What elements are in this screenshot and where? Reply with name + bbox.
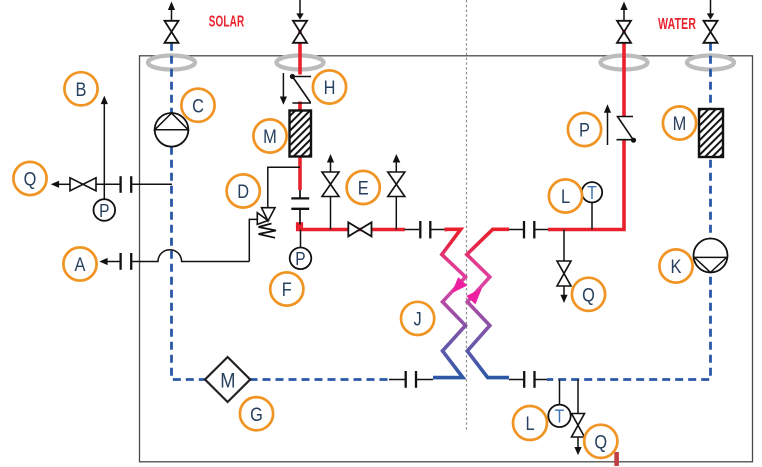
label circle Q bottom — [584, 425, 617, 458]
vent arrow up above right red valve — [623, 8, 625, 20]
svg-text:Q: Q — [594, 431, 607, 453]
drain line A with crossover bump — [131, 250, 250, 262]
label circle L upper — [549, 179, 582, 212]
label circle H — [313, 70, 346, 103]
label circle C — [181, 89, 214, 122]
union on drain line A — [119, 253, 121, 270]
blue bottom run from flow meter to HX union — [250, 378, 390, 381]
svg-text:T: T — [555, 406, 565, 427]
union on line Q left — [119, 176, 121, 193]
pressure gauge P on line Q left — [103, 184, 105, 200]
gray sleeve ellipse left blue pipe — [148, 56, 195, 70]
air vent E valve 2 — [395, 197, 397, 230]
red solar supply pipe top segment — [298, 31, 302, 75]
gray sleeve ellipse left red pipe — [277, 56, 324, 70]
svg-text:F: F — [282, 279, 292, 301]
valve on line Q left (bowtie) — [70, 178, 96, 191]
vent line B with arrow up — [103, 104, 105, 185]
svg-text:J: J — [414, 308, 422, 330]
top valve on right red pipe — [617, 21, 631, 43]
relief valve D drain elbow — [249, 219, 257, 261]
label circle B — [64, 72, 97, 105]
label circle M left — [253, 119, 286, 152]
top valve on left blue pipe — [165, 21, 179, 43]
union on red header right side of HX — [509, 229, 523, 231]
relief valve D spring — [259, 224, 277, 238]
gray sleeve ellipse right blue pipe — [687, 56, 734, 70]
union on red header left — [405, 229, 420, 231]
label circle K — [659, 249, 692, 282]
thermometer T on water header — [591, 203, 593, 230]
label circle Q left — [13, 162, 46, 195]
svg-text:M: M — [263, 126, 277, 148]
top valve on left red pipe — [293, 21, 307, 43]
drain valve Q on water header — [563, 230, 565, 262]
red pipe between check valve H and meter M — [298, 102, 302, 111]
svg-text:C: C — [192, 95, 204, 117]
svg-text:D: D — [237, 181, 249, 203]
svg-text:P: P — [295, 249, 305, 270]
relief valve D body — [262, 208, 276, 221]
red junction node square — [296, 222, 303, 229]
svg-text:P: P — [99, 201, 109, 222]
svg-text:L: L — [561, 186, 570, 208]
label circle M right — [663, 106, 696, 139]
drain valve Q on cold water line — [577, 380, 579, 414]
flow meter M on right blue pipe (hatched) — [699, 109, 723, 157]
fill/drain line Q left — [59, 183, 71, 185]
valve on red header (bowtie) — [348, 222, 360, 236]
feed arrow down into right blue valve — [710, 0, 712, 14]
vent arrow up above left blue valve — [171, 8, 173, 20]
heat exchanger J right coil — [467, 229, 509, 377]
relief valve D piping from red pipe — [268, 167, 300, 208]
HX flow arrow up-right on right coil — [466, 284, 486, 305]
flow meter M on left red pipe (hatched) — [290, 111, 312, 157]
label circle D — [227, 174, 260, 207]
check valve H on left red pipe — [292, 77, 311, 104]
svg-text:E: E — [358, 177, 369, 199]
thermometer T on cold water line — [559, 380, 561, 405]
flow meter M diamond on blue return — [205, 357, 250, 402]
label circle L lower — [513, 406, 547, 440]
blue water side pipe (dashed) right vertical + bottom run — [547, 43, 711, 380]
svg-text:SOLAR: SOLAR — [209, 12, 245, 30]
label circle A — [63, 247, 96, 280]
red water-side header — [548, 140, 624, 230]
union on blue water bottom right of HX — [509, 379, 523, 381]
top valve on right blue pipe — [704, 21, 718, 43]
circulating pump C — [155, 113, 189, 147]
label circle F — [270, 272, 303, 305]
svg-text:Q: Q — [24, 168, 37, 190]
red drain tick at bottom border — [614, 452, 619, 466]
union on left red pipe below meter — [299, 190, 301, 198]
pressure gauge P under red junction — [300, 230, 302, 249]
svg-text:WATER: WATER — [658, 15, 696, 33]
check valve P on water riser — [617, 117, 634, 141]
union on blue return left of HX — [389, 379, 405, 381]
tank outline box — [140, 56, 753, 462]
HX flow arrow down-left on left coil — [447, 277, 467, 298]
svg-text:P: P — [579, 119, 590, 141]
svg-text:H: H — [324, 77, 336, 99]
label circle G — [240, 397, 273, 430]
circulating pump K — [694, 239, 728, 273]
blue solar return pipe (dashed) left vertical + bottom run — [172, 43, 206, 380]
svg-text:B: B — [76, 79, 87, 101]
red pipe below meter M — [298, 157, 302, 191]
svg-text:T: T — [587, 183, 597, 204]
air vent E valve 1 — [330, 197, 332, 230]
svg-text:L: L — [525, 413, 534, 435]
arrow out left on drain line A — [99, 258, 107, 265]
flow arrow up beside check valve P — [607, 112, 609, 145]
svg-text:M: M — [673, 113, 687, 135]
label circle J — [401, 302, 434, 335]
heat exchanger J left coil — [433, 229, 466, 377]
red header left section — [296, 228, 405, 232]
svg-text:M: M — [220, 369, 235, 393]
flow arrow down beside check valve H — [282, 73, 284, 97]
label circle E — [347, 171, 380, 204]
label circle P — [568, 113, 601, 146]
svg-text:Q: Q — [582, 284, 595, 306]
svg-text:G: G — [250, 404, 263, 426]
red water riser above check valve P — [622, 31, 626, 117]
red header right of union to HX — [445, 228, 448, 232]
gray sleeve ellipse right red pipe — [601, 56, 648, 70]
feed arrow down into left red valve — [299, 0, 301, 14]
svg-text:A: A — [75, 254, 86, 276]
dotted divider line — [466, 0, 468, 432]
label circle Q middle — [572, 278, 605, 311]
svg-text:K: K — [671, 256, 682, 278]
